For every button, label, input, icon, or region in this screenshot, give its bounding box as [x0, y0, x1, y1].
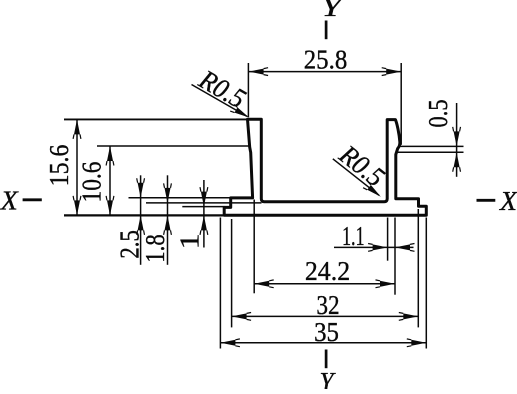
dimension 32	[232, 290, 419, 321]
ext line 35 right	[425, 218, 427, 349]
svg-text:Y: Y	[322, 0, 345, 22]
leader R0.5 left	[192, 63, 252, 118]
Y axis top tick	[325, 21, 328, 40]
ext line 24.2 left	[253, 200, 255, 294]
ext line step2 top left for 1	[182, 206, 224, 208]
svg-text:1: 1	[175, 233, 205, 249]
ext line 1.1 left wall inner	[387, 218, 389, 261]
dimension 15.6 height	[44, 119, 81, 215]
svg-text:25.8: 25.8	[304, 44, 348, 74]
ext line base bottom left	[64, 214, 224, 216]
X axis right tick	[477, 199, 496, 202]
svg-text:32: 32	[316, 290, 339, 320]
dimension 1	[175, 180, 208, 249]
svg-text:1.1: 1.1	[342, 221, 365, 251]
ext line 25.8 right	[400, 63, 402, 145]
dimension 1.1	[334, 221, 415, 251]
svg-text:15.6: 15.6	[44, 145, 74, 187]
Y axis bottom tick	[325, 350, 328, 369]
ext line 35 left	[219, 218, 221, 349]
ext line 32 right	[417, 209, 419, 327]
ext line step1 top left for 2.5	[129, 197, 231, 199]
leader R0.5 right	[333, 138, 391, 197]
svg-text:X: X	[0, 185, 19, 215]
svg-text:35: 35	[314, 317, 339, 347]
dimension 0.5	[423, 100, 461, 177]
svg-text:Y: Y	[320, 368, 336, 390]
dimension 25.8 top width	[249, 44, 402, 75]
dimension 35	[220, 317, 426, 347]
ext line 0.5 bottom	[398, 151, 464, 153]
svg-text:1.8: 1.8	[140, 234, 170, 263]
ext line 0.5 top	[400, 145, 463, 147]
svg-text:24.2: 24.2	[305, 256, 350, 286]
ext line 1.1/24.2 right wall outer	[394, 218, 396, 295]
svg-text:0.5: 0.5	[423, 100, 453, 128]
X axis left tick	[23, 198, 42, 201]
ext line 32 left	[231, 219, 233, 327]
svg-text:X: X	[499, 186, 517, 216]
ext line notch left for 10.6	[97, 145, 250, 147]
profile outline of extrusion cross-section	[224, 119, 426, 215]
dimension 10.6 height	[77, 146, 114, 215]
dimension 1.8	[140, 175, 171, 264]
dimension 24.2	[254, 256, 395, 288]
dimension 2.5	[115, 175, 145, 264]
ext line wall top left for 15.6	[64, 118, 248, 120]
ext line floor level left for 1.8	[146, 202, 262, 204]
svg-text:10.6: 10.6	[77, 162, 107, 203]
ext line 25.8 left	[247, 63, 249, 117]
